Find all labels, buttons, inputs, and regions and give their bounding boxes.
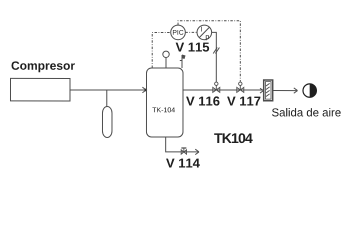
- filter capsule: [102, 106, 112, 137]
- outlet symbol half-filled circle: [303, 84, 316, 97]
- wire pipe compressor to tank: [70, 89, 146, 91]
- wire drain from tank bottom: [166, 137, 199, 152]
- label TK-104: [152, 107, 175, 112]
- label V 116: [186, 96, 219, 105]
- wire pipe rotameter to outlet: [273, 90, 298, 92]
- label V 117: [227, 97, 260, 106]
- label TK104: [214, 133, 253, 143]
- control valve V117: [237, 82, 244, 92]
- control valve V116: [213, 82, 220, 92]
- drain valve V114: [181, 148, 186, 154]
- arrowhead at outlet: [294, 88, 298, 93]
- rotameter flow indicator: [264, 80, 273, 101]
- arrowhead drain outlet: [195, 149, 199, 154]
- wire stem to filter capsule: [106, 90, 108, 107]
- relief valve stem on tank top: [165, 57, 167, 68]
- vent flag: [182, 55, 186, 60]
- instrument I/P converter: [197, 25, 212, 40]
- wire pneumatic I/P to V116 actuator: [212, 32, 217, 81]
- wire pipe tank outlet to rotameter: [183, 89, 264, 91]
- label Salida de aire: [272, 108, 341, 116]
- pneumatic break slashes: [213, 48, 217, 54]
- relief valve circle: [163, 51, 169, 57]
- arrowhead into rotameter: [260, 88, 264, 93]
- wire dashed PIC to I/P: [185, 31, 197, 33]
- wire dashed PIC top to V117 actuator: [178, 21, 240, 82]
- instrument PIC: [171, 25, 186, 40]
- label V 115: [176, 43, 210, 52]
- arrowhead into tank: [142, 87, 146, 93]
- tank TK-104: [146, 68, 183, 137]
- wire dash-dot pressure tap from tank to PIC: [152, 32, 170, 68]
- compressor box: [10, 78, 70, 101]
- vent flag pole on tank top: [181, 55, 183, 68]
- vent flag tick: [180, 60, 182, 62]
- label Compresor: [12, 61, 75, 72]
- label V 114: [166, 159, 200, 168]
